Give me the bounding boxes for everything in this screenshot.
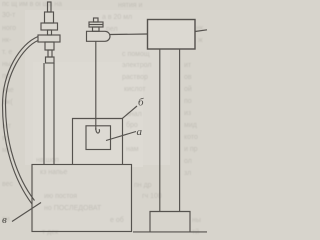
svg-text:пс щ им в оι ща на: пс щ им в оι ща на <box>2 1 62 8</box>
burette collar 1 <box>41 23 58 30</box>
svg-text:нам: нам <box>126 146 139 153</box>
burette column <box>44 63 54 165</box>
svg-text:нв шоп: нв шоп <box>36 157 59 164</box>
base box <box>32 165 132 232</box>
burette nut block <box>45 12 54 23</box>
svg-text:а: а <box>137 126 143 138</box>
leader a <box>106 132 136 141</box>
cell inner box <box>86 126 111 150</box>
svg-text:и пр: и пр <box>184 146 198 153</box>
svg-text:кото: кото <box>184 134 198 141</box>
burette top rod <box>48 2 52 12</box>
svg-text:ны: ны <box>2 61 11 68</box>
burette collar 2 (tube port) <box>38 35 60 42</box>
svg-text:ию постоя: ию постоя <box>44 193 77 200</box>
svg-text:ного: ного <box>2 25 16 32</box>
svg-text:из: из <box>184 110 191 117</box>
svg-text:по: по <box>184 98 192 105</box>
stand leg right <box>179 49 181 212</box>
svg-text:мид: мид <box>184 122 197 129</box>
svg-text:а в 20 мл: а в 20 мл <box>102 14 132 21</box>
ghost bleed-through text <box>2 1 204 236</box>
stirrer motor body <box>87 31 111 41</box>
svg-text:кз напье: кз напье <box>40 169 67 176</box>
svg-text:мо: мо <box>2 147 11 154</box>
tube inner line <box>6 41 39 201</box>
control unit box <box>148 20 196 50</box>
stand leg left <box>159 49 161 212</box>
svg-text:т. е: т. е <box>2 49 12 56</box>
electrode hook <box>96 128 100 133</box>
leader b <box>123 106 138 118</box>
svg-text:нк-: нк- <box>2 37 12 44</box>
burette cap <box>46 57 55 63</box>
svg-text:нятия и: нятия и <box>118 2 143 9</box>
tube outer line <box>3 37 39 205</box>
svg-text:вж(: вж( <box>2 99 13 106</box>
burette rod 3 <box>48 50 52 57</box>
svg-text:в: в <box>2 214 7 226</box>
wire motor to box <box>110 33 148 36</box>
svg-text:с помощ: с помощ <box>122 51 150 58</box>
stirrer midline <box>89 24 103 26</box>
svg-text:ой: ой <box>184 85 192 93</box>
thermostat outer box <box>73 119 123 165</box>
svg-text:ж: ж <box>198 37 203 44</box>
stirrer block <box>89 22 103 27</box>
svg-text:ит: ит <box>184 62 192 69</box>
svg-text:ны: ны <box>192 217 201 224</box>
svg-text:пн др: пн др <box>134 182 152 189</box>
stand step box <box>150 212 190 233</box>
svg-text:раствор: раствор <box>122 74 148 81</box>
svg-text:е об: е об <box>110 216 124 224</box>
svg-text:т дек: т дек <box>42 229 59 236</box>
stirrer knob <box>94 18 99 22</box>
svg-text:б: б <box>138 97 144 109</box>
svg-text:анал: анал <box>126 111 142 118</box>
svg-text:но ПОСЛЕДОВАТ: но ПОСЛЕДОВАТ <box>44 205 102 212</box>
burette rod 2 <box>48 30 52 35</box>
stirrer connector <box>93 27 100 31</box>
electrode wire <box>95 41 97 130</box>
svg-text:ол: ол <box>184 158 192 165</box>
svg-text:электрол: электрол <box>122 62 151 69</box>
svg-text:30-т: 30-т <box>2 12 16 19</box>
stand base line <box>133 231 207 233</box>
leader v <box>12 203 41 222</box>
scanned page background <box>0 0 211 239</box>
svg-text:ов: ов <box>184 74 192 81</box>
svg-text:гч 100: гч 100 <box>142 193 162 200</box>
svg-text:вес: вес <box>2 181 14 188</box>
svg-text:кислот: кислот <box>124 86 146 93</box>
burette block 2 <box>45 42 54 50</box>
leader right <box>195 30 207 32</box>
svg-text:зл: зл <box>184 170 191 177</box>
